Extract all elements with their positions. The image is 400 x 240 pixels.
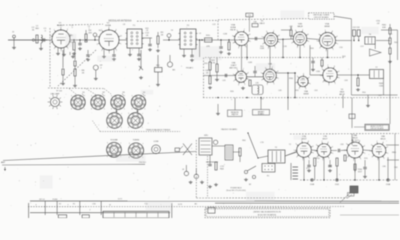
svg-text:8: 8 [328,142,329,144]
svg-text:J3: J3 [182,169,184,171]
svg-text:6: 6 [371,145,372,147]
svg-text:V6A: V6A [304,90,308,93]
svg-text:.5: .5 [71,27,73,29]
svg-text:8: 8 [359,140,360,142]
svg-text:8: 8 [249,34,250,36]
svg-text:.01: .01 [146,30,149,32]
svg-text:ANT: ANT [1,161,6,164]
svg-text:5: 5 [107,143,108,145]
svg-text:4: 4 [233,43,234,45]
svg-text:A 100 KEY BOARDS): A 100 KEY BOARDS) [258,213,277,216]
svg-text:7: 7 [302,29,303,31]
svg-text:S1: S1 [59,204,61,206]
svg-text:10K: 10K [382,27,386,29]
svg-text:1: 1 [337,43,338,45]
svg-text:TP 105: TP 105 [56,91,62,93]
svg-text:5: 5 [261,73,262,75]
svg-text:7: 7 [145,95,146,97]
svg-text:5: 5 [233,74,234,76]
svg-text:C63: C63 [344,80,347,82]
svg-text:9: 9 [313,146,314,148]
svg-text:6: 6 [296,144,297,146]
svg-text:2: 2 [333,49,334,51]
svg-text:4: 4 [319,47,320,49]
svg-text:C57: C57 [360,46,363,48]
svg-text:7: 7 [84,95,85,97]
svg-text:4: 4 [347,157,348,159]
svg-text:5: 5 [294,150,295,152]
svg-text:C50: C50 [339,47,342,49]
svg-text:C90: C90 [92,204,95,206]
svg-text:3: 3 [238,47,239,49]
svg-text:9: 9 [332,147,333,149]
svg-text:6EU7: 6EU7 [322,139,328,141]
svg-text:2: 2 [360,159,361,161]
svg-text:1: 1 [310,84,311,86]
svg-text:10: 10 [120,36,122,38]
svg-text:6BN8: 6BN8 [303,94,309,96]
svg-text:3: 3 [297,47,298,49]
svg-text:1: 1 [142,127,143,129]
svg-text:CIRCUIT BOARD: CIRCUIT BOARD [314,16,330,19]
svg-text:3: 3 [268,48,269,50]
svg-text:2: 2 [274,83,275,85]
svg-text:R41: R41 [342,56,345,58]
svg-text:T6: T6 [369,34,371,36]
svg-text:1: 1 [313,153,314,155]
svg-text:M1: M1 [173,70,176,72]
svg-text:TREBLE BALANCE TREBLE: TREBLE BALANCE TREBLE [146,128,171,131]
svg-text:6: 6 [295,30,296,32]
svg-text:5: 5 [297,76,298,78]
svg-text:1: 1 [387,153,388,155]
svg-text:2: 2 [275,47,276,49]
svg-text:1: 1 [279,42,280,44]
svg-text:6: 6 [316,145,317,147]
svg-text:V8A: V8A [353,134,357,137]
svg-text:6BL8: 6BL8 [260,23,266,25]
svg-text:8: 8 [60,27,61,29]
svg-text:8: 8 [279,35,280,37]
svg-text:Z: Z [90,210,91,212]
svg-text:5: 5 [132,95,133,97]
svg-text:6: 6 [266,31,267,33]
svg-text:C41: C41 [222,80,225,82]
svg-text:3: 3 [91,108,92,110]
svg-text:2: 2 [116,50,117,52]
svg-text:2: 2 [335,83,336,85]
svg-text:AM OSC: AM OSC [230,67,238,70]
svg-text:FM AFC: FM AFC [186,66,194,69]
svg-text:C67: C67 [378,95,381,97]
svg-text:6: 6 [237,30,238,32]
svg-text:C33: C33 [283,46,286,48]
svg-text:1: 1 [250,41,251,43]
svg-text:3: 3 [107,156,108,158]
svg-text:1: 1 [364,153,365,155]
svg-text:9: 9 [67,29,68,31]
svg-text:8: 8 [308,141,309,143]
svg-text:4: 4 [101,50,102,52]
svg-text:4: 4 [261,80,262,82]
svg-text:V2: V2 [102,92,104,94]
svg-text:3: 3 [302,160,303,162]
svg-text:12AT7: 12AT7 [231,64,238,67]
svg-text:V3A: V3A [231,24,236,27]
svg-text:C30: C30 [253,21,256,23]
svg-text:1: 1 [120,43,121,45]
svg-text:7: 7 [273,30,274,32]
svg-text:3: 3 [107,127,108,129]
svg-text:7: 7 [104,95,105,97]
svg-text:5: 5 [314,151,315,153]
svg-text:TP1: TP1 [248,15,251,17]
svg-text:9: 9 [116,29,117,31]
svg-text:S2: S2 [249,184,251,186]
svg-text:5: 5 [320,75,321,77]
svg-text:6AQ8: 6AQ8 [297,25,303,28]
svg-text:3: 3 [299,88,300,90]
svg-text:2: 2 [245,47,246,49]
svg-text:2: 2 [67,48,68,50]
svg-text:7: 7 [121,113,122,115]
svg-text:R70: R70 [316,158,319,160]
svg-text:5: 5 [262,36,263,38]
svg-text:5: 5 [369,151,370,153]
svg-text:6: 6 [97,36,98,38]
svg-text:5: 5 [91,95,92,97]
svg-text:T2: T2 [275,147,277,149]
svg-text:AM IF: AM IF [339,93,345,96]
svg-text:(WIRED VALUE ANDERSON 2N: (WIRED VALUE ANDERSON 2N [253,211,281,214]
svg-text:8: 8 [332,31,333,33]
svg-text:6U8A: 6U8A [105,24,111,27]
svg-text:3: 3 [353,160,354,162]
svg-text:AF OUT: AF OUT [351,139,359,142]
svg-text:6: 6 [346,143,347,145]
svg-text:BOARD: BOARD [258,113,265,116]
svg-text:1: 1 [339,78,340,80]
svg-text:3: 3 [322,160,323,162]
svg-text:2: 2 [309,158,310,160]
svg-text:R44: R44 [394,42,397,44]
svg-text:C45: C45 [278,90,281,92]
svg-text:R26: R26 [230,91,233,93]
svg-text:3: 3 [326,51,327,53]
svg-text:3: 3 [328,84,329,86]
svg-text:117V: 117V [178,204,183,206]
svg-text:R36: R36 [324,81,327,83]
svg-text:8: 8 [383,142,384,144]
svg-text:V1: V1 [82,92,84,94]
svg-text:1: 1 [308,41,309,43]
svg-text:3: 3 [111,108,112,110]
svg-text:R82: R82 [394,167,397,169]
svg-text:4.7K: 4.7K [211,62,216,64]
svg-text:F1: F1 [73,204,75,206]
svg-text:V6: V6 [137,107,139,109]
svg-text:1: 1 [124,108,125,110]
svg-text:1: 1 [332,153,333,155]
svg-text:L20: L20 [256,83,259,85]
svg-text:6U8A: 6U8A [230,26,236,29]
svg-text:9: 9 [338,71,339,73]
svg-text:1: 1 [84,108,85,110]
svg-text:2: 2 [304,46,305,48]
svg-text:DIAL LAMP: DIAL LAMP [51,93,61,96]
svg-text:VOLUME: VOLUME [110,140,118,142]
svg-text:5: 5 [97,44,98,46]
svg-text:1: 1 [121,127,122,129]
svg-text:9: 9 [387,147,388,149]
svg-text:4: 4 [296,156,297,158]
svg-text:5: 5 [232,35,233,37]
svg-text:7: 7 [54,29,55,31]
svg-text:4: 4 [295,82,296,84]
svg-text:R33: R33 [310,48,313,50]
svg-text:C22: C22 [212,24,215,26]
svg-text:3: 3 [267,84,268,86]
svg-text:CONE: CONE [154,141,160,143]
svg-text:8: 8 [334,66,335,68]
svg-text:9: 9 [364,146,365,148]
svg-text:INT LK: INT LK [39,199,45,201]
svg-text:SWITCH: SWITCH [231,114,238,116]
svg-text:7: 7 [309,77,310,79]
svg-text:7: 7 [376,141,377,143]
svg-text:C82: C82 [340,144,343,146]
svg-text:7: 7 [142,143,143,145]
svg-text:R4: R4 [99,30,101,32]
svg-text:T7: T7 [375,67,377,69]
svg-text:C52 C53: C52 C53 [352,27,359,29]
svg-text:6: 6 [319,34,320,36]
svg-text:5: 5 [317,41,318,43]
svg-text:MODULAR ANTENNA: MODULAR ANTENNA [109,20,132,23]
svg-text:8: 8 [108,27,109,29]
svg-text:1: 1 [144,108,145,110]
svg-text:3: 3 [377,160,378,162]
svg-text:6: 6 [303,73,304,75]
svg-text:C70: C70 [260,142,263,144]
svg-text:4: 4 [291,43,292,45]
svg-text:2: 2 [384,158,385,160]
svg-text:5: 5 [71,95,72,97]
svg-text:9: 9 [337,36,338,38]
svg-text:3: 3 [131,108,132,110]
svg-text:L9: L9 [199,33,201,35]
svg-text:3: 3 [238,84,239,86]
svg-text:SW1: SW1 [204,135,208,137]
svg-text:C86: C86 [382,166,385,168]
svg-text:8: 8 [248,73,249,75]
svg-text:6: 6 [322,69,323,71]
svg-text:2: 2 [329,158,330,160]
svg-text:PHONO: PHONO [139,162,146,164]
svg-text:R50: R50 [362,92,365,94]
svg-text:T2: T2 [289,144,291,146]
svg-text:CIRCUIT BOARD: CIRCUIT BOARD [370,127,384,130]
svg-text:5: 5 [111,95,112,97]
svg-text:3: 3 [128,127,129,129]
svg-text:7: 7 [142,113,143,115]
svg-text:R60: R60 [242,140,245,142]
svg-text:7: 7 [244,29,245,31]
svg-text:5: 5 [344,150,345,152]
svg-text:R20: R20 [204,63,207,65]
svg-text:5: 5 [107,113,108,115]
svg-text:C61: C61 [314,90,317,92]
svg-text:R31: R31 [295,90,298,92]
svg-text:7: 7 [120,143,121,145]
svg-text:3: 3 [109,52,110,54]
svg-text:V5: V5 [116,107,118,109]
svg-text:5: 5 [128,113,129,115]
svg-text:(Serial WG 175-4 E-1400): (Serial WG 175-4 E-1400) [226,189,246,192]
svg-text:8: 8 [308,34,309,36]
svg-text:FM IF: FM IF [230,30,236,32]
svg-text:V3: V3 [122,92,124,94]
svg-text:3: 3 [71,108,72,110]
svg-text:7: 7 [243,69,244,71]
svg-text:TUNING: TUNING [133,140,140,142]
svg-text:V5A: V5A [325,22,330,25]
svg-text:C8: C8 [123,24,125,26]
svg-text:4: 4 [54,48,55,50]
svg-text:2: 2 [244,84,245,86]
svg-text:7: 7 [124,95,125,97]
svg-text:6BN8: 6BN8 [324,26,330,28]
svg-text:100K: 100K [260,48,265,50]
svg-text:7: 7 [327,65,328,67]
svg-text:C54C: C54C [335,184,340,186]
svg-text:7AUDIO BOARD: 7AUDIO BOARD [221,128,238,131]
svg-text:1: 1 [104,108,105,110]
svg-text:7: 7 [325,30,326,32]
svg-text:R75: R75 [364,158,367,160]
svg-text:FUSE: FUSE [53,199,59,201]
svg-text:5: 5 [129,143,130,145]
svg-text:3: 3 [61,50,62,52]
svg-text:1: 1 [88,28,89,30]
svg-text:4: 4 [233,80,234,82]
svg-text:4: 4 [372,157,373,159]
svg-text:7: 7 [321,141,322,143]
svg-text:P1: P1 [267,176,269,178]
svg-text:6BQ5: 6BQ5 [380,139,386,141]
svg-text:1: 1 [278,78,279,80]
